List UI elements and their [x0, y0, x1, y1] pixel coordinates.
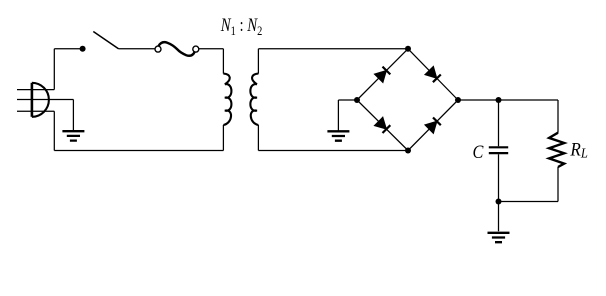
svg-text:N1 : N2: N1 : N2: [220, 14, 263, 38]
svg-text:C: C: [473, 141, 484, 162]
